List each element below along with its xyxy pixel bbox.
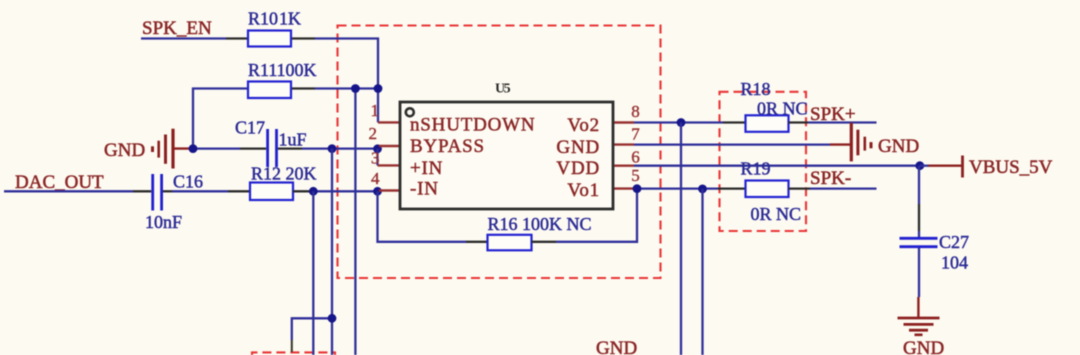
svg-text:100K: 100K [277,60,317,80]
junction dot VDD [915,161,924,170]
svg-text:1uF: 1uF [279,130,307,150]
wire dac net down [312,191,314,355]
wire Vo2 net down [680,123,682,355]
junction dot Vo1 [633,184,642,193]
red dashed box around R18 R19 [720,92,807,231]
svg-text:7: 7 [631,125,640,144]
lead C27 top [918,204,920,231]
lead R12 right [293,190,313,192]
U5 inversion circle [406,108,414,116]
lead R10 left [226,37,248,39]
svg-text:R11: R11 [248,60,277,80]
wire DAC_OUT to C16 [4,190,133,192]
wire Vo1 to R19 [637,187,718,189]
svg-text:8: 8 [631,102,640,121]
svg-text:GND: GND [556,137,600,158]
svg-text:C17: C17 [235,118,265,138]
pin stub 7 [613,143,634,145]
pin stub 5 [613,187,634,189]
svg-text:U5: U5 [495,82,511,97]
pin stub 4 [379,189,400,191]
lead C17 right [278,147,302,149]
svg-text:3: 3 [371,149,380,168]
lead jog bottom [291,340,293,352]
svg-text:VBUS_5V: VBUS_5V [969,157,1053,178]
svg-text:0R NC: 0R NC [757,99,808,119]
wire bypass branch jog [292,318,332,340]
junction dot row B x355 [351,84,360,93]
svg-text:1K: 1K [279,9,301,29]
svg-text:SPK-: SPK- [810,168,851,189]
pin stub 6 [613,164,634,166]
svg-text:R10: R10 [248,9,278,29]
svg-text:nSHUTDOWN: nSHUTDOWN [410,115,535,136]
wire VDD dot to VBUS lead [920,165,929,167]
pin stub 2 [379,145,400,147]
svg-text:BYPASS: BYPASS [410,136,485,157]
pin stub 8 [613,121,634,123]
lead R18 right [789,121,809,123]
capacitor C27 [900,238,938,246]
resistor R16 [488,235,532,251]
wire nSHUTDOWN net down to other circuit [354,89,356,355]
pin stub 3 [378,164,401,166]
wire R16 up to Vo1 [556,189,637,242]
svg-text:10nF: 10nF [145,212,182,232]
svg-text:Vo1: Vo1 [567,180,600,201]
lead R16 right [532,241,557,243]
lead C16 left [133,190,151,192]
svg-text:1: 1 [371,101,380,120]
svg-text:5: 5 [631,166,640,185]
red dashed box around U5 amplifier section [338,26,661,279]
wire Vo2 to SPK+ [634,121,723,123]
svg-text:4: 4 [371,169,380,188]
svg-text:+IN: +IN [410,158,443,179]
resistor R12 [250,183,293,201]
junction dot GND/C17/R11 [189,144,198,153]
op-amp U5 body [400,102,613,209]
svg-text:104: 104 [941,253,968,273]
wire R12 to -IN [313,190,378,192]
junction dot C17 right [328,144,337,153]
capacitor C17 [268,129,277,167]
lead R11 right [291,87,315,89]
ground symbol bottom right [898,297,940,335]
wire R11 left to GND junction [193,89,248,149]
resistor R19 [746,181,789,198]
wire C27 bottom [918,248,920,297]
junction dot -IN [373,187,382,196]
ground symbol left [153,129,194,169]
lead R19 right [789,187,811,189]
junction dot Vo2 [677,118,686,127]
svg-text:R18: R18 [741,79,771,99]
svg-text:DAC_OUT: DAC_OUT [15,172,104,193]
svg-text:GND: GND [903,338,944,355]
lead R12 left [228,190,250,192]
svg-text:C27: C27 [939,232,969,252]
svg-text:VDD: VDD [556,158,600,179]
lead C16 right [163,190,172,192]
junction dot row B x378 [374,84,383,93]
wire R19 to SPK- end [810,187,877,189]
lead R18 left [723,121,746,123]
wire SPK_EN to R10 [141,37,226,39]
wire R11 right to v1 [315,87,378,89]
ground symbol right [830,123,871,162]
junction dot R12 right [309,187,318,196]
svg-text:R19: R19 [741,159,771,179]
lead C17 left [240,147,266,149]
wire bypass net down [331,149,333,355]
wire Vo1 net down [701,189,703,355]
wire R10 to corner [315,39,378,123]
svg-text:SPK+: SPK+ [810,104,856,125]
junction dot Vo1 net down [698,185,707,194]
svg-text:Vo2: Vo2 [567,115,600,136]
resistor R11 [248,82,291,99]
svg-text:R16 100K NC: R16 100K NC [488,214,592,234]
wire GND junction to C17 [193,147,240,149]
wire into C27 plate [918,231,920,237]
wire BYPASS to +IN [376,149,378,166]
lead R10 right [291,37,315,39]
lead R19 left [718,187,746,189]
junction dot jog [328,314,337,323]
svg-text:GND: GND [596,338,637,355]
resistor R10 [248,31,291,47]
lead R16 left [466,241,488,243]
svg-text:C16: C16 [173,172,203,192]
svg-text:-IN: -IN [410,179,439,200]
svg-text:SPK_EN: SPK_EN [142,18,212,39]
wire -IN down to R16 loop [378,191,467,242]
wire C17 to BYPASS [302,147,378,149]
wire GND pin to ground right [634,143,830,145]
wire R18 to SPK+ end [808,121,877,123]
svg-text:R12 20K: R12 20K [251,164,317,184]
svg-text:GND: GND [878,136,919,157]
wire C16 to R12 [172,190,228,192]
pin stub 1 [378,121,400,123]
VBUS_5V power bar [928,156,963,178]
wire VBUS down to C27 [918,166,920,204]
red dashed box bottom-left (cut off) [252,352,335,355]
junction dot BYPASS [373,144,382,153]
svg-text:GND: GND [104,140,145,161]
svg-text:2: 2 [369,124,378,143]
svg-text:6: 6 [631,148,640,167]
resistor R18 [746,115,789,132]
capacitor C16 [153,174,162,211]
svg-text:0R NC: 0R NC [751,204,802,224]
wire VDD to VBUS [634,165,920,167]
